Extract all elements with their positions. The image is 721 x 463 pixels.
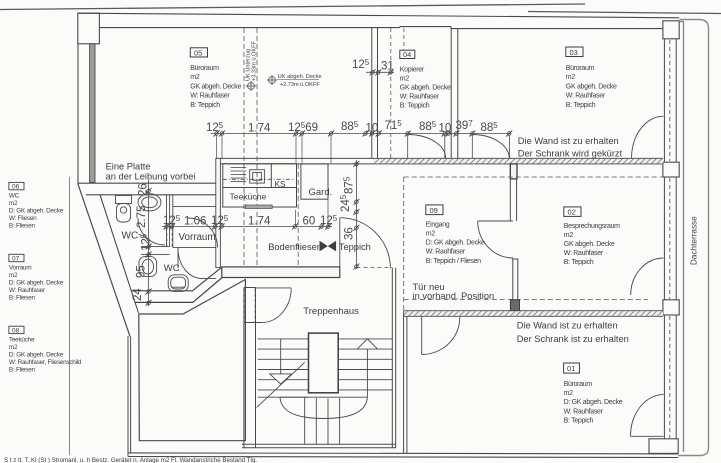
corridor south wall band bbox=[222, 267, 340, 278]
dimension chain corridor (y=226.5) bbox=[162, 226, 332, 228]
svg-text:GK abgeh. Decke: GK abgeh. Decke bbox=[190, 83, 241, 90]
level mark: UK Unterzug (rotated) bbox=[246, 40, 258, 91]
svg-text:10: 10 bbox=[439, 123, 452, 135]
stairs central shaft bbox=[309, 333, 339, 393]
note: Die Wand (top) bbox=[518, 136, 623, 159]
svg-text:B: Fliesen: B: Fliesen bbox=[9, 367, 36, 374]
protected wall 1 (hatched) bbox=[216, 158, 663, 164]
exterior wall: top-left corner box bbox=[78, 13, 100, 44]
svg-text:B: Fliesen: B: Fliesen bbox=[9, 295, 36, 302]
sink WC1 bbox=[138, 194, 161, 211]
svg-text:Eine Platte: Eine Platte bbox=[106, 162, 151, 172]
bottom-right step pillar bbox=[649, 439, 678, 454]
svg-text:UK abgeh. Decke: UK abgeh. Decke bbox=[278, 74, 322, 80]
stairs left flight treads bbox=[258, 339, 309, 397]
room label 05 bbox=[190, 48, 241, 109]
dashed link corridor arc to wall bbox=[356, 267, 392, 269]
svg-text:01: 01 bbox=[567, 364, 575, 373]
stair hall left wall bbox=[244, 288, 263, 448]
Dachterrasse label bbox=[690, 216, 699, 265]
Teekueche west wall bbox=[216, 158, 221, 267]
dashed beam line x244 bbox=[243, 28, 245, 267]
svg-text:WC: WC bbox=[122, 231, 139, 242]
stairs right flight treads bbox=[338, 339, 392, 390]
legend entry 08 bbox=[9, 326, 82, 373]
door 09/02: leaf + swing bbox=[478, 221, 513, 258]
note: Eine Platte bbox=[106, 162, 196, 182]
dashed beam line x257 bbox=[256, 28, 258, 268]
vorraum room box bbox=[167, 195, 216, 248]
room 01 left wall bbox=[404, 311, 407, 453]
svg-text:+3.33m ü.OKFF: +3.33m ü.OKFF bbox=[252, 40, 258, 81]
svg-text:Bodenfliesen: Bodenfliesen bbox=[268, 242, 322, 252]
Vorraum label bbox=[179, 232, 216, 243]
vertical dim chain WC (x=148.6) bbox=[148, 180, 150, 306]
exterior diagonal wall inner bbox=[100, 195, 139, 313]
Gard label bbox=[309, 187, 333, 198]
svg-text:W: Rauhfaser: W: Rauhfaser bbox=[9, 287, 46, 294]
guide line teekueche east bbox=[296, 199, 329, 226]
exterior wall: top band bbox=[78, 13, 680, 28]
svg-text:Gard.: Gard. bbox=[309, 187, 333, 198]
protected wall 2 (hatched) bbox=[404, 311, 663, 316]
svg-text:31: 31 bbox=[381, 61, 394, 73]
svg-text:06: 06 bbox=[12, 184, 20, 191]
dashed boundary eingang left bbox=[403, 177, 405, 311]
svg-text:W: Rauhfaser: W: Rauhfaser bbox=[190, 93, 230, 100]
svg-text:KS: KS bbox=[275, 180, 286, 189]
note: Bodenfliesen / Teppich + symbol bbox=[268, 241, 371, 252]
svg-text:36: 36 bbox=[344, 227, 356, 240]
svg-text:m2: m2 bbox=[566, 74, 576, 81]
interior wall room05/04 bbox=[372, 28, 378, 158]
dimension chain kopierer top (y=72.3) bbox=[366, 71, 394, 73]
door arc room 01 bbox=[631, 395, 664, 437]
svg-text:m2: m2 bbox=[9, 200, 18, 207]
svg-text:Besprechungsraum: Besprechungsraum bbox=[564, 223, 620, 230]
stairs guide stem + up arrow bbox=[357, 339, 377, 397]
svg-text:B: Fliesen: B: Fliesen bbox=[9, 223, 36, 230]
svg-text:02: 02 bbox=[568, 208, 576, 217]
svg-text:Der Schrank ist zu erhalten: Der Schrank ist zu erhalten bbox=[517, 334, 629, 344]
svg-text:1.74: 1.74 bbox=[248, 216, 271, 228]
svg-text:B: Teppich: B: Teppich bbox=[564, 418, 594, 425]
svg-text:Teeküche: Teeküche bbox=[230, 192, 267, 202]
svg-text:24: 24 bbox=[132, 288, 144, 301]
door in protected wall 2: leaf + swing bbox=[422, 316, 460, 354]
svg-text:Die Wand ist zu erhalten: Die Wand ist zu erhalten bbox=[518, 136, 619, 146]
svg-text:09: 09 bbox=[430, 206, 438, 215]
exterior diagonal wall outer bbox=[78, 184, 130, 337]
svg-text:D: GK abgeh. Decke: D: GK abgeh. Decke bbox=[9, 208, 64, 215]
svg-text:Büroraum: Büroraum bbox=[566, 65, 595, 72]
stairs entry guide + down arrow bbox=[270, 339, 292, 384]
sheet top edge line B bbox=[528, 12, 721, 14]
svg-text:W: Rauhfaser: W: Rauhfaser bbox=[426, 249, 466, 256]
svg-text:Vorraum: Vorraum bbox=[179, 232, 216, 243]
room label 01 bbox=[564, 363, 623, 425]
svg-text:WC: WC bbox=[9, 193, 20, 200]
svg-text:Dachterrasse: Dachterrasse bbox=[690, 216, 699, 265]
svg-text:Der Schrank wird gekürzt: Der Schrank wird gekürzt bbox=[518, 149, 623, 159]
room label 02 bbox=[564, 207, 620, 266]
svg-text:10: 10 bbox=[366, 123, 379, 135]
stair hall door leaf + swing bbox=[256, 288, 292, 323]
right wall segment 3 bbox=[664, 315, 676, 439]
dim labels upper chain bbox=[206, 119, 498, 135]
svg-text:W: Fliesen: W: Fliesen bbox=[9, 215, 37, 222]
door arc room03->corridor bbox=[472, 135, 509, 159]
svg-text:Treppenhaus: Treppenhaus bbox=[303, 306, 359, 317]
wall stub below hatched wall at 09/02 bbox=[510, 164, 517, 179]
svg-text:an der Leibung vorbei: an der Leibung vorbei bbox=[106, 171, 196, 181]
svg-text:1.74: 1.74 bbox=[248, 123, 271, 135]
svg-text:W: Rauhfaser: W: Rauhfaser bbox=[564, 408, 604, 415]
sink WC2 bbox=[168, 275, 188, 292]
Gard box bbox=[301, 164, 328, 199]
legend entry 07 bbox=[9, 254, 64, 301]
roof terrace boundary bbox=[678, 20, 709, 456]
svg-text:2.75: 2.75 bbox=[136, 206, 148, 228]
svg-text:B: Teppich / Fliesen: B: Teppich / Fliesen bbox=[426, 258, 481, 265]
svg-text:Teppich: Teppich bbox=[339, 242, 371, 252]
stairs winder curve bbox=[280, 397, 367, 418]
WC partition wall vertical bbox=[167, 195, 170, 247]
room label 04 bbox=[400, 50, 451, 109]
right wall segment 1 bbox=[664, 39, 676, 162]
dashed line under Tuer neu bbox=[404, 298, 648, 300]
svg-text:W: Rauhfaser: W: Rauhfaser bbox=[564, 250, 604, 257]
stair hall bottom wall bbox=[242, 444, 396, 448]
hall lower door bbox=[178, 247, 216, 278]
right wall pillar mid2 bbox=[663, 300, 679, 315]
svg-text:B: Teppich: B: Teppich bbox=[400, 103, 430, 110]
right wall pillar mid1 bbox=[663, 162, 679, 177]
note: Tuer neu bbox=[413, 282, 495, 301]
svg-text:Die Wand ist zu erhalten: Die Wand ist zu erhalten bbox=[517, 320, 618, 330]
Teekueche stove bbox=[250, 170, 265, 183]
svg-text:W: Rauhfaser: W: Rauhfaser bbox=[400, 94, 440, 101]
svg-text:04: 04 bbox=[403, 50, 411, 59]
interior wall 09/02 bbox=[510, 179, 516, 221]
svg-text:WC: WC bbox=[164, 263, 180, 274]
svg-text:m2: m2 bbox=[9, 272, 18, 279]
Teekueche box bbox=[223, 164, 297, 207]
WC partition wall horizontal bbox=[141, 247, 170, 255]
svg-text:in vorhand. Position: in vorhand. Position bbox=[413, 291, 495, 301]
svg-text:Teeküche: Teeküche bbox=[9, 337, 35, 344]
svg-text:03: 03 bbox=[570, 48, 578, 57]
sheet top edge line A bbox=[0, 4, 585, 10]
svg-text:m2: m2 bbox=[190, 74, 200, 81]
toilet WC1 bbox=[116, 196, 132, 223]
door arc room 03 bbox=[631, 116, 663, 158]
WC1 label bbox=[122, 231, 149, 242]
dashed lines kopierer bbox=[391, 28, 404, 158]
dashed boundary eingang top bbox=[404, 176, 663, 178]
svg-text:GK abgeh. Decke: GK abgeh. Decke bbox=[566, 83, 617, 90]
KS fridge label bbox=[275, 180, 286, 189]
svg-text:08: 08 bbox=[12, 327, 20, 334]
svg-text:m2: m2 bbox=[400, 76, 410, 83]
Teekueche counter grey bbox=[245, 205, 272, 209]
Treppenhaus label bbox=[303, 306, 359, 317]
stair hall right wall bbox=[392, 268, 395, 448]
svg-text:D: GK abgeh. Decke: D: GK abgeh. Decke bbox=[564, 399, 623, 406]
svg-text:B: Teppich: B: Teppich bbox=[564, 259, 594, 266]
Teekueche sink stripes bbox=[231, 168, 247, 182]
Teekueche label bbox=[230, 192, 267, 202]
svg-text:Eingang: Eingang bbox=[426, 221, 450, 228]
svg-text:26: 26 bbox=[138, 183, 150, 196]
svg-text:05: 05 bbox=[194, 48, 202, 57]
stairs diagonal direction line bbox=[257, 362, 305, 407]
svg-text:m2: m2 bbox=[564, 390, 574, 397]
exterior wall: lower-left vertical bbox=[128, 336, 131, 457]
legend separator line bbox=[68, 177, 70, 455]
stairwell: big empty room bbox=[139, 280, 246, 441]
door arc kopierer->corridor bbox=[408, 135, 446, 159]
svg-text:D: GK abgeh. Decke: D: GK abgeh. Decke bbox=[9, 352, 64, 359]
room label 09 bbox=[426, 205, 485, 265]
svg-text:m2: m2 bbox=[426, 230, 436, 237]
svg-text:m2: m2 bbox=[9, 344, 18, 351]
note: Die Wand (bottom) bbox=[517, 320, 629, 344]
Tür neu post bbox=[510, 300, 519, 311]
svg-text:+2.73m ü.OKFF: +2.73m ü.OKFF bbox=[280, 82, 321, 88]
svg-text:W: Rauhfaser: W: Rauhfaser bbox=[566, 93, 606, 100]
exterior wall: bottom band bbox=[128, 453, 678, 458]
svg-text:Kopierer: Kopierer bbox=[400, 67, 425, 74]
WC2 label bbox=[164, 263, 180, 274]
exterior wall: left bbox=[77, 44, 79, 184]
svg-text:GK abgeh. Decke: GK abgeh. Decke bbox=[400, 85, 451, 92]
room label 03 bbox=[566, 47, 617, 109]
WC cluster south wall lines bbox=[131, 267, 222, 302]
door arc WC1 bbox=[138, 218, 165, 245]
svg-text:Vorraum: Vorraum bbox=[9, 265, 31, 272]
vorraum door arc bbox=[188, 218, 218, 248]
svg-text:B: Teppich: B: Teppich bbox=[190, 102, 220, 109]
svg-text:D: GK abgeh. Decke: D: GK abgeh. Decke bbox=[426, 240, 485, 247]
left wall inner leaf (grey) bbox=[90, 44, 95, 183]
svg-text:07: 07 bbox=[12, 256, 20, 263]
stairs landing chord bbox=[280, 396, 367, 398]
wall band below room 05 bbox=[78, 183, 221, 195]
door arc room 02 bbox=[631, 258, 664, 295]
interior wall room04/03 bbox=[445, 28, 458, 158]
right wall segment 2 bbox=[664, 177, 676, 300]
level mark: UK abgeh. Decke bbox=[267, 74, 322, 88]
svg-text:95: 95 bbox=[136, 265, 148, 278]
svg-text:W: Rauhfaser, Fliesenschild: W: Rauhfaser, Fliesenschild bbox=[9, 359, 82, 366]
svg-text:S t z lt. T. Kl (St ) Stro: S t z lt. T. Kl (St ) Stromanl. u. h Bes… bbox=[4, 457, 257, 463]
svg-text:60: 60 bbox=[303, 216, 316, 228]
svg-text:1.06: 1.06 bbox=[184, 216, 206, 228]
toilet WC2 bbox=[139, 257, 157, 277]
dashed line x298 bbox=[297, 164, 299, 268]
stairs winder risers bbox=[305, 397, 340, 444]
vertical dim chain garderobe (x=356.4) bbox=[355, 160, 357, 268]
right wall pillar top corner bbox=[663, 21, 679, 39]
faint bottom sheet text bbox=[4, 457, 257, 463]
svg-text:m2: m2 bbox=[564, 232, 574, 239]
svg-text:Büroraum: Büroraum bbox=[564, 381, 593, 388]
svg-text:Büroraum: Büroraum bbox=[190, 65, 219, 72]
entrance door swing (big arc) bbox=[340, 218, 391, 269]
legend entry 06 bbox=[9, 182, 64, 229]
svg-text:GK abgeh. Decke: GK abgeh. Decke bbox=[564, 241, 615, 248]
Tür neu leaf bbox=[513, 259, 518, 300]
svg-text:D: GK abgeh. Decke: D: GK abgeh. Decke bbox=[9, 280, 64, 287]
dimension chain upper (y=133.5) bbox=[211, 134, 511, 164]
svg-text:B: Teppich: B: Teppich bbox=[566, 102, 596, 109]
